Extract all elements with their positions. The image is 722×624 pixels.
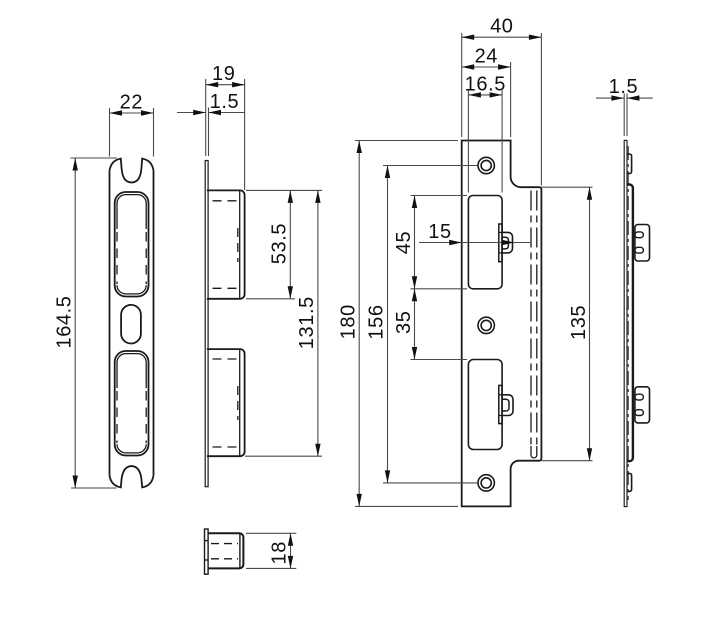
svg-text:35: 35 <box>393 311 415 334</box>
lug block upper <box>635 225 650 262</box>
svg-text:19: 19 <box>212 63 235 85</box>
svg-text:1.5: 1.5 <box>210 91 240 113</box>
svg-text:45: 45 <box>393 231 415 254</box>
screw hole top inner <box>481 160 491 170</box>
dimension 156 <box>383 166 478 483</box>
box 2 hidden dash top <box>213 358 238 360</box>
latch strip tick top <box>499 231 502 233</box>
box outline <box>208 533 243 568</box>
lug block lower <box>635 387 650 423</box>
svg-text:53.5: 53.5 <box>268 223 290 264</box>
svg-text:156: 156 <box>366 304 388 339</box>
hidden plate bottom cap <box>531 446 537 458</box>
box 2 hidden dash bottom <box>213 446 238 448</box>
pocket box 1 <box>207 190 245 298</box>
plate top fishtail <box>110 159 154 183</box>
plate right edge <box>153 171 155 476</box>
dimension 24 <box>462 62 511 137</box>
hidden plate line right <box>536 191 538 449</box>
deadbolt head inner <box>502 399 509 411</box>
dimension 1.5 (view 2) <box>177 112 245 114</box>
plate left edge <box>109 171 111 476</box>
dimension 16.5 <box>468 91 502 193</box>
svg-text:164.5: 164.5 <box>54 295 76 348</box>
screw hole middle inner <box>481 320 491 330</box>
deadbolt opening <box>468 360 502 450</box>
screw hole bottom inner <box>481 478 491 488</box>
faceplate strip <box>205 529 209 574</box>
side plate <box>205 161 208 487</box>
box 1 inner face line <box>239 190 241 298</box>
slot 1 outer <box>115 192 149 297</box>
deadbolt strip tick bottom <box>499 415 502 417</box>
slot 2 inner top cap <box>117 354 146 388</box>
strip tick lower <box>205 559 209 561</box>
bottom bump <box>627 473 632 491</box>
dimension 35 <box>411 289 468 360</box>
latch strip tick bottom <box>499 252 502 254</box>
dimension 19 <box>206 79 245 190</box>
faceplate and case outline <box>462 141 542 507</box>
dimension 15 <box>419 242 532 244</box>
dimension 53.5 <box>246 190 322 298</box>
deadbolt strip <box>499 385 502 423</box>
box inner face line <box>239 533 241 568</box>
dimension 22 <box>110 108 154 157</box>
dimension 45 <box>411 196 468 289</box>
dimension 40 <box>462 33 542 186</box>
svg-text:22: 22 <box>120 92 143 114</box>
slot 1 inner top cap <box>117 195 146 229</box>
strip tick upper <box>205 540 209 542</box>
svg-text:135: 135 <box>568 305 590 340</box>
dimension 1.5 (right) <box>596 94 653 137</box>
pocket box 2 <box>207 349 245 456</box>
lug prong upper 1 <box>635 232 644 238</box>
centerline <box>627 146 629 500</box>
deadbolt strip tick top <box>499 394 502 396</box>
screw hole top outer <box>478 157 494 173</box>
box 1 hidden dash vertical <box>237 228 239 262</box>
slot 2 hidden dash right <box>145 391 147 443</box>
hidden plate line left <box>530 191 532 449</box>
slot 2 outer <box>115 351 149 456</box>
dimension 131.5 <box>245 190 322 456</box>
latch head inner <box>502 237 508 249</box>
slot 1 inner bottom cap <box>117 285 146 294</box>
lug prong upper 2 <box>635 247 644 253</box>
plate bottom fishtail <box>110 466 154 487</box>
slot 2 inner bottom cap <box>117 444 146 453</box>
box 2 hidden dash vertical <box>237 386 239 420</box>
case profile <box>627 185 633 462</box>
lug prong lower 1 <box>635 394 644 400</box>
dimension 18 <box>246 533 296 568</box>
dimension 164.5 <box>71 158 118 488</box>
box 2 inner face line <box>239 349 241 456</box>
slot 1 hidden dash right <box>145 232 147 284</box>
svg-text:40: 40 <box>490 16 513 38</box>
screw hole bottom outer <box>478 475 494 491</box>
box 1 hidden dash bottom <box>213 287 238 289</box>
slot 1 hidden dash left <box>116 232 118 284</box>
box hidden dash upper <box>211 543 238 545</box>
box 1 hidden dash top <box>213 200 238 202</box>
latch opening <box>468 196 502 289</box>
oval hole <box>121 305 141 344</box>
latch strip <box>499 224 502 262</box>
svg-text:1.5: 1.5 <box>609 76 639 98</box>
slot 2 hidden dash left <box>116 391 118 443</box>
svg-text:18: 18 <box>269 541 291 564</box>
lug prong lower 2 <box>635 410 644 416</box>
faceplate strip side <box>624 140 627 506</box>
svg-text:180: 180 <box>338 304 360 339</box>
svg-text:131.5: 131.5 <box>296 296 318 349</box>
dimension 135 <box>541 187 592 461</box>
dimension 180 <box>355 141 458 507</box>
top lug bump <box>627 154 632 174</box>
svg-text:15: 15 <box>428 221 451 243</box>
svg-text:16.5: 16.5 <box>465 73 506 95</box>
box hidden dash lower <box>211 558 238 560</box>
deadbolt head outer <box>502 395 513 416</box>
screw hole middle outer <box>478 317 494 333</box>
latch head outer <box>502 232 513 253</box>
svg-text:24: 24 <box>475 46 498 68</box>
